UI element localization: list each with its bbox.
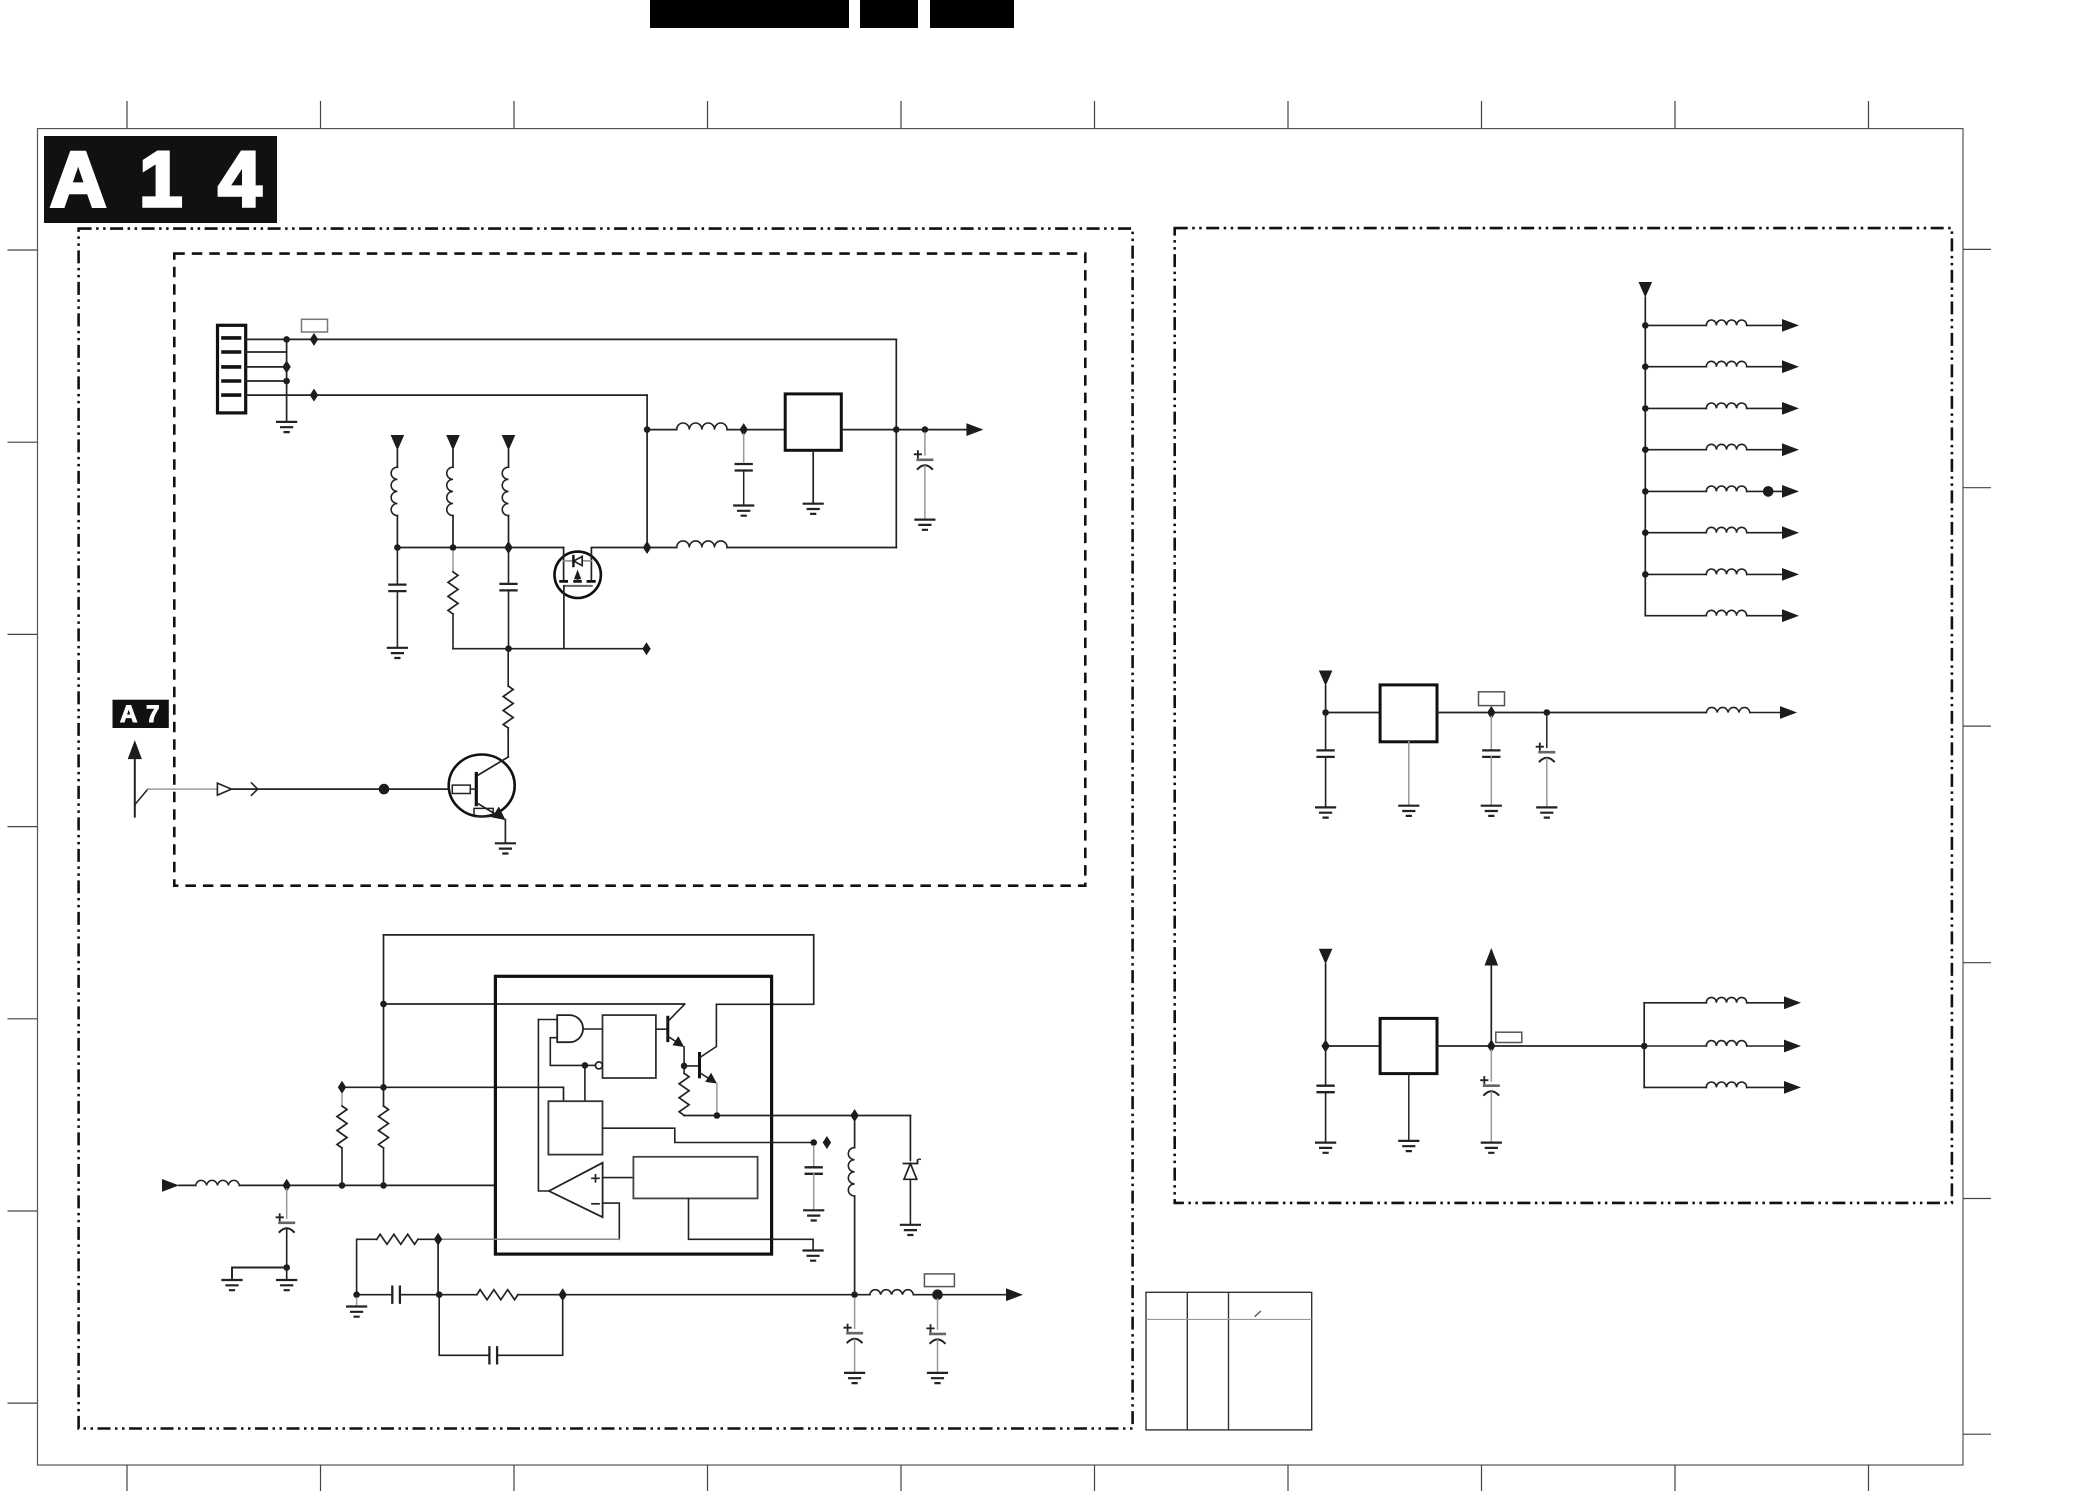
node branch 6 (1642, 529, 1649, 536)
transistor Q4 collector (700, 1004, 717, 1058)
wire C11 stub (1325, 713, 1327, 751)
wire AND output (583, 1028, 602, 1030)
wire R6 right stub (418, 1238, 438, 1240)
wire AC ground stub (356, 1298, 358, 1306)
wire connector ground stub (286, 339, 288, 421)
wire R5 bottom stub (683, 1114, 685, 1116)
capacitor C15 electrolytic (1481, 1077, 1498, 1095)
wire C7 to node (400, 1294, 439, 1296)
branch 1 wire (1645, 324, 1706, 326)
op-amp minus mark (592, 1203, 599, 1205)
transistor Q3 emitter (668, 1036, 682, 1045)
inductor L18 (1706, 707, 1750, 712)
transistor Q2 internal base resistor (452, 785, 470, 793)
node marker bus C (504, 541, 512, 554)
node marker feedback (434, 1233, 442, 1246)
op-amp plus mark (592, 1175, 599, 1182)
wire Q4 base (684, 1065, 699, 1067)
transistor Q3 collector (668, 1004, 685, 1021)
wire U3 output (1437, 712, 1706, 714)
transistor Q2 emitter arrow (492, 807, 506, 821)
node marker input (283, 1179, 291, 1192)
wire L4 bottom (854, 1196, 856, 1295)
arrow branch 5 (1782, 485, 1799, 498)
branch 7 wire (1645, 573, 1706, 575)
branch 5 wire (1645, 490, 1706, 492)
node marker U3 out (1487, 706, 1495, 719)
wire pin1 net vertical (895, 339, 897, 547)
ground regulator U1 (804, 504, 823, 514)
wire op-amp output feedback (538, 1020, 549, 1192)
off-sheet arrow A7 (128, 740, 142, 759)
wire coil A top (396, 450, 398, 467)
capacitor C3 (389, 585, 405, 592)
ground C6 (804, 1210, 823, 1220)
wire R4 bottom stub (383, 1148, 385, 1185)
arrow audio output (1006, 1288, 1023, 1301)
ground AC (347, 1307, 366, 1317)
wire R6 left leg (357, 1239, 377, 1294)
transistor Q2 base wire (470, 788, 476, 790)
node output filter (851, 1291, 858, 1298)
ground U3 (1399, 806, 1418, 816)
wire tap line (342, 1087, 564, 1101)
node marker pin5 (310, 389, 318, 402)
node drive output (714, 1112, 721, 1119)
wire AND input bottom (550, 1038, 585, 1066)
wire feedback line (438, 1238, 619, 1240)
node output big (932, 1289, 943, 1300)
wire node to R7 (439, 1294, 477, 1296)
wire L15 out (1747, 532, 1782, 534)
wire AC coupling left (357, 1294, 393, 1296)
top ruler ticks (127, 101, 1869, 128)
node U3 input (1322, 709, 1329, 716)
resistor R3 (337, 1106, 347, 1148)
MOSFET Q1 terminal bars (561, 580, 595, 583)
ground zener (901, 1225, 920, 1235)
node output cap (922, 426, 929, 433)
ground C13 (1537, 807, 1556, 817)
wire input net (239, 1184, 495, 1186)
wire L19 out (1747, 1002, 1784, 1004)
wire input to L3 (179, 1184, 196, 1186)
wire Q4 emitter lead (716, 1084, 718, 1116)
inductor L5 (870, 1290, 914, 1295)
node branch 7 (1642, 571, 1649, 578)
wire L10 out (1747, 324, 1782, 326)
inductor L17 (1706, 610, 1746, 615)
wire L18 out (1750, 712, 1780, 714)
wire to inductor L1 (647, 429, 677, 431)
node collector net (380, 1001, 387, 1008)
node branch 4 (1642, 446, 1649, 453)
wire R3 top stub (341, 1094, 343, 1106)
wire C9 ground stub (854, 1340, 856, 1373)
wire L2 to pin1 net (727, 547, 896, 549)
ground connector (277, 422, 296, 432)
inductor L10 (1706, 320, 1746, 325)
transistor Q2 internal BE resistor (474, 808, 493, 816)
wire collector net into IC (384, 1003, 685, 1005)
wire bottom bus to L2 (647, 547, 677, 549)
wire op-amp +input (603, 1177, 634, 1179)
wire Q3 emitter to node (683, 1047, 685, 1066)
wire C2 stub (924, 433, 926, 455)
flip-flop block U2b (603, 1015, 656, 1078)
connector J1 (218, 325, 246, 413)
wire R2 to Q2 collector (507, 728, 509, 757)
wire resistor R2 top stub (507, 649, 509, 686)
wire fanout top (1644, 1002, 1706, 1004)
wire L21 out (1747, 1086, 1784, 1088)
wire drive output net (684, 1115, 910, 1117)
node marker U4 input (1321, 1040, 1329, 1053)
sheet label A14 (44, 135, 277, 223)
value label box output (924, 1274, 954, 1287)
node feedback lower (436, 1291, 443, 1298)
ground left (223, 1280, 242, 1290)
ground reference (804, 1251, 823, 1261)
node branch 2 (1642, 363, 1649, 370)
wire C14 stub (1325, 1046, 1327, 1086)
ground Q2 emitter (496, 843, 515, 853)
value label box U3 (1479, 692, 1505, 706)
resistor R6 (377, 1234, 418, 1244)
control block U2c (548, 1101, 602, 1154)
wire C14 ground stub (1325, 1092, 1327, 1142)
ground C10 (928, 1373, 947, 1383)
wire C4 bottom stub (508, 590, 510, 648)
node sense pin (810, 1139, 817, 1146)
chevron direction mark (252, 783, 258, 795)
node pin1/pin2 (283, 336, 290, 343)
node branch 1 (1642, 322, 1649, 329)
transistor Q4 emitter (700, 1073, 715, 1082)
transistor Q2 emitter (476, 803, 503, 819)
wire U4 output (1437, 1045, 1644, 1047)
arrow branch 2 (1782, 360, 1799, 373)
wire R3 bottom stub (341, 1148, 343, 1185)
inductor L13 (1706, 444, 1746, 449)
inductor L12 (1706, 403, 1746, 408)
AND gate U2a (557, 1015, 583, 1042)
wire zener to ground (909, 1179, 911, 1224)
arrow output V1 (966, 423, 983, 436)
transistor Q4 emitter arrow (705, 1073, 717, 1084)
MOSFET Q1 body circle (555, 552, 601, 598)
arrow branch 6 (1782, 526, 1799, 539)
wire C15 stub (1490, 1050, 1492, 1081)
wire op-amp -input (603, 1203, 620, 1239)
node marker gate bus (642, 642, 650, 655)
node output/pin1 net (893, 426, 900, 433)
capacitor C10 electrolytic (927, 1325, 944, 1343)
inductor L15 (1706, 527, 1746, 532)
reference block U2e (633, 1157, 757, 1199)
wire regulator ground pin (812, 450, 814, 503)
node input R4 (380, 1182, 387, 1189)
node bus B (450, 544, 457, 551)
regulator U4 (1380, 1018, 1437, 1073)
power arrow up U4 out (1485, 948, 1499, 966)
inductor L21 (1706, 1082, 1746, 1087)
redacted title block bar 2 (860, 0, 918, 28)
arrow fanout top (1784, 996, 1801, 1009)
svg-text:A 7: A 7 (120, 701, 161, 728)
resistor R7 (477, 1290, 518, 1300)
wire U3 input (1326, 686, 1381, 713)
arrow branch 3 (1782, 402, 1799, 415)
wire R5 top stub (683, 1066, 685, 1073)
wire regulator output (841, 429, 966, 431)
inductor L11 (1706, 361, 1746, 366)
arrow branch 4 (1782, 443, 1799, 456)
revision table (1146, 1292, 1312, 1430)
wire C10 ground stub (937, 1340, 939, 1372)
wire fanout vertical (1643, 1003, 1645, 1088)
power arrow regulator U4 (1319, 949, 1333, 965)
node marker pin1 (310, 333, 318, 346)
MOSFET Q1 substrate arrow (577, 574, 579, 581)
wire U4 input (1326, 964, 1381, 1046)
wire L11 out (1747, 366, 1782, 368)
capacitor C12 (1483, 750, 1499, 757)
IC U2 outline (495, 976, 771, 1254)
ground U4 (1399, 1141, 1418, 1151)
ground C1 (734, 506, 753, 516)
wire block right pin (603, 1128, 814, 1142)
node U4 fanout (1641, 1043, 1648, 1050)
wire R7 to output net (518, 1294, 855, 1296)
branch 3 wire (1645, 407, 1706, 409)
branch 4 wire (1645, 449, 1706, 451)
wire C9 stub (854, 1298, 856, 1328)
wire C8 loop (439, 1295, 563, 1356)
MOSFET Q1 drain lead (591, 548, 646, 581)
right ruler ticks (1963, 249, 1991, 1434)
node gate bus (505, 645, 512, 652)
wire coil A bottom (396, 516, 398, 548)
wire U4 ground pin (1408, 1074, 1410, 1141)
wire C3 ground stub (396, 591, 398, 647)
wire C5 bottom (286, 1229, 288, 1268)
branch 8 wire (1645, 615, 1706, 617)
node feedback tap (582, 1062, 589, 1069)
transistor Q3 emitter arrow (673, 1036, 685, 1047)
sub-module outline (top-left, dashed) (174, 254, 1085, 886)
ground C9 (845, 1373, 864, 1383)
MOSFET Q1 gate lead (563, 586, 565, 649)
wire C13 ground stub (1546, 759, 1548, 807)
wire bubble to node (585, 1064, 596, 1066)
wire C12 ground stub (1490, 757, 1492, 805)
capacitor C2 electrolytic (915, 451, 932, 469)
wire U3 ground pin (1408, 742, 1410, 805)
wire main bus (397, 547, 563, 549)
wire pin1 net (246, 338, 897, 340)
redacted title block bar 1 (650, 0, 849, 28)
regulator U1 (785, 394, 841, 450)
wire to left ground (232, 1268, 287, 1280)
inductor L1 (677, 423, 727, 430)
wire C5 stub (286, 1189, 288, 1218)
MOSFET Q1 diode cathode bar (572, 556, 574, 566)
buffer arrow symbol (217, 783, 231, 795)
capacitor C1 (736, 464, 752, 471)
node filter input (644, 426, 651, 433)
wire coil B top (452, 450, 454, 467)
node marker bottom bus (643, 541, 651, 554)
wire R1 bottom stub (452, 614, 454, 649)
wire array bus (1644, 298, 1646, 616)
inductor L4 vertical branch (854, 1122, 856, 1148)
ground C12 (1482, 806, 1501, 816)
module outline (left block, dash-dot) (79, 229, 1133, 1429)
wire pin5 net vertical (646, 395, 648, 547)
inductor L14 (1706, 486, 1746, 491)
wire C15 ground stub (1490, 1092, 1492, 1142)
wire L1 to regulator (727, 429, 785, 431)
wire L16 out (1747, 573, 1782, 575)
ground C15 (1482, 1143, 1501, 1153)
power arrow inductor array (1639, 282, 1653, 298)
wire fanout mid (1644, 1045, 1706, 1047)
ground C14 (1316, 1143, 1335, 1153)
wire L12 out (1747, 407, 1782, 409)
wire coil C top (508, 450, 510, 467)
capacitor C13 electrolytic (1537, 744, 1554, 762)
wire C12 stub (1490, 717, 1492, 751)
wire C1 to ground (743, 471, 745, 506)
wire C11 ground stub (1325, 757, 1327, 807)
value label box (302, 319, 328, 332)
node divider tap (380, 1084, 387, 1091)
resistor R4 (379, 1106, 389, 1148)
node marker after L1 (740, 423, 748, 436)
power arrow coil A (391, 435, 405, 451)
svg-text:A 1 4: A 1 4 (50, 135, 269, 223)
left ruler ticks (8, 250, 38, 1403)
wire L20 out (1747, 1045, 1784, 1047)
arrow fanout bottom (1784, 1081, 1801, 1094)
arrow input feed (162, 1179, 179, 1192)
wire AND input top (538, 1019, 557, 1021)
capacitor C5 electrolytic (277, 1214, 294, 1232)
zener diode D1 (903, 1159, 920, 1179)
MOSFET Q1 body-diode wire (564, 560, 592, 562)
wire pin2 (246, 351, 287, 353)
value label box U4 (1496, 1032, 1522, 1042)
wire pin3 (246, 366, 287, 368)
node input R3 (339, 1182, 346, 1189)
node branch 5 (1642, 488, 1649, 495)
inductor L4 (848, 1148, 854, 1196)
node C5 ground split (283, 1264, 290, 1271)
node pin4 (283, 378, 290, 385)
power arrow regulator U3 (1319, 671, 1333, 687)
inductor L3 (196, 1180, 240, 1185)
transistor Q4 base bar (698, 1054, 701, 1077)
wire A7 signal to base (231, 788, 448, 790)
wire C13 stub (1546, 717, 1548, 748)
op-amp U2d (549, 1163, 603, 1217)
inductor coil B (447, 467, 453, 515)
node bus A (394, 544, 401, 551)
arrow branch 8 (1782, 609, 1799, 622)
resistor R1 (448, 572, 458, 614)
inductor L20 (1706, 1041, 1746, 1046)
inductor L2 (677, 541, 727, 548)
branch 2 wire (1645, 366, 1706, 368)
wire output (913, 1294, 1006, 1296)
wire pin5 net (246, 394, 647, 396)
transistor Q3 base bar (666, 1017, 669, 1040)
arrow branch 1 (1782, 319, 1799, 332)
module outline (right block, dash-dot) (1175, 228, 1952, 1203)
MOSFET Q1 gate plate (564, 585, 592, 587)
node marker sense pin (823, 1136, 831, 1149)
wire C6 stub (813, 1146, 815, 1167)
wire gate bus (453, 648, 647, 650)
wire off-sheet link (135, 789, 148, 805)
wire up arrow stub (1490, 966, 1492, 1047)
power arrow coil C (502, 435, 516, 451)
transistor Q2 collector (477, 757, 508, 776)
node C13 tap (1544, 709, 1551, 716)
capacitor C9 electrolytic (844, 1325, 861, 1343)
node branch 3 (1642, 405, 1649, 412)
wire to right ground (286, 1268, 288, 1280)
transistor Q2 base bar (475, 774, 478, 805)
node AC ground tap (353, 1291, 360, 1298)
resistor R2 (503, 686, 513, 728)
wire L14 out (1747, 490, 1782, 492)
inductor L19 (1706, 997, 1746, 1002)
resistor R5 (679, 1073, 689, 1115)
inverter bubble (595, 1062, 602, 1069)
node marker drive output (850, 1109, 858, 1122)
arrow fanout mid (1784, 1040, 1801, 1053)
node marker U4 out (1487, 1040, 1495, 1053)
wire cap C3 stub (396, 548, 398, 585)
ground C3 (388, 648, 407, 658)
node base wire (379, 784, 390, 795)
capacitor C4 (501, 584, 517, 591)
wire L17 out (1747, 615, 1782, 617)
node branch 5 tap (1763, 486, 1774, 497)
MOSFET Q1 source lead (563, 548, 565, 581)
inductor coil C (502, 467, 508, 515)
capacitor C8 series (489, 1347, 497, 1363)
wire resistor R1 top stub (452, 551, 454, 572)
inductor L16 (1706, 569, 1746, 574)
wire coil B bottom (452, 516, 454, 548)
wire pin4 (246, 380, 287, 382)
connector J1 pins 1-5 (223, 338, 240, 395)
transistor Q2 body circle (449, 755, 515, 817)
branch 6 wire (1645, 532, 1706, 534)
arrow branch 7 (1782, 568, 1799, 581)
wire A7 signal gray (148, 788, 218, 790)
wire collector net vertical (383, 935, 385, 1106)
ground right (277, 1280, 296, 1290)
wire C6 ground stub (813, 1174, 815, 1210)
ground C2 (915, 520, 934, 530)
wire fanout bottom (1644, 1086, 1706, 1088)
power arrow coil B (446, 435, 460, 451)
wire cap C4 stub (508, 548, 510, 584)
